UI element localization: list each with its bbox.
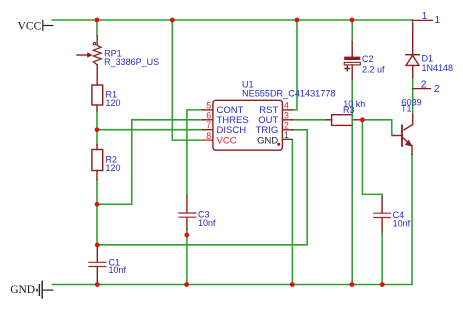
svg-text:10nf: 10nf bbox=[198, 218, 216, 228]
svg-text:4: 4 bbox=[284, 100, 289, 110]
svg-text:NE555DR_C41431778: NE555DR_C41431778 bbox=[242, 88, 336, 98]
svg-text:1N4148: 1N4148 bbox=[422, 63, 454, 73]
svg-text:T1: T1 bbox=[401, 104, 412, 114]
svg-text:2: 2 bbox=[421, 79, 427, 90]
svg-text:1: 1 bbox=[422, 11, 428, 22]
svg-text:GND: GND bbox=[257, 136, 278, 147]
svg-text:2: 2 bbox=[284, 120, 289, 130]
svg-text:3: 3 bbox=[284, 110, 289, 120]
svg-text:5: 5 bbox=[206, 100, 211, 110]
svg-text:GND: GND bbox=[10, 284, 35, 296]
svg-text:8: 8 bbox=[206, 131, 211, 141]
svg-text:R3: R3 bbox=[343, 105, 355, 115]
svg-text:1: 1 bbox=[435, 15, 441, 26]
svg-text:10nf: 10nf bbox=[393, 218, 411, 228]
svg-text:120: 120 bbox=[106, 98, 121, 108]
svg-text:DISCH: DISCH bbox=[217, 125, 247, 136]
svg-text:1: 1 bbox=[284, 130, 289, 140]
svg-text:VCC: VCC bbox=[217, 136, 237, 147]
svg-text:2.2 uf: 2.2 uf bbox=[362, 65, 385, 75]
svg-text:6: 6 bbox=[206, 110, 211, 120]
svg-text:VCC: VCC bbox=[18, 20, 42, 32]
svg-text:7: 7 bbox=[206, 120, 211, 130]
svg-text:R_3386P_US: R_3386P_US bbox=[104, 57, 159, 67]
svg-text:10nf: 10nf bbox=[109, 265, 127, 275]
svg-text:C2: C2 bbox=[362, 54, 374, 64]
svg-text:120: 120 bbox=[106, 163, 121, 173]
svg-text:2: 2 bbox=[434, 84, 440, 95]
svg-text:TRIG: TRIG bbox=[256, 125, 279, 136]
